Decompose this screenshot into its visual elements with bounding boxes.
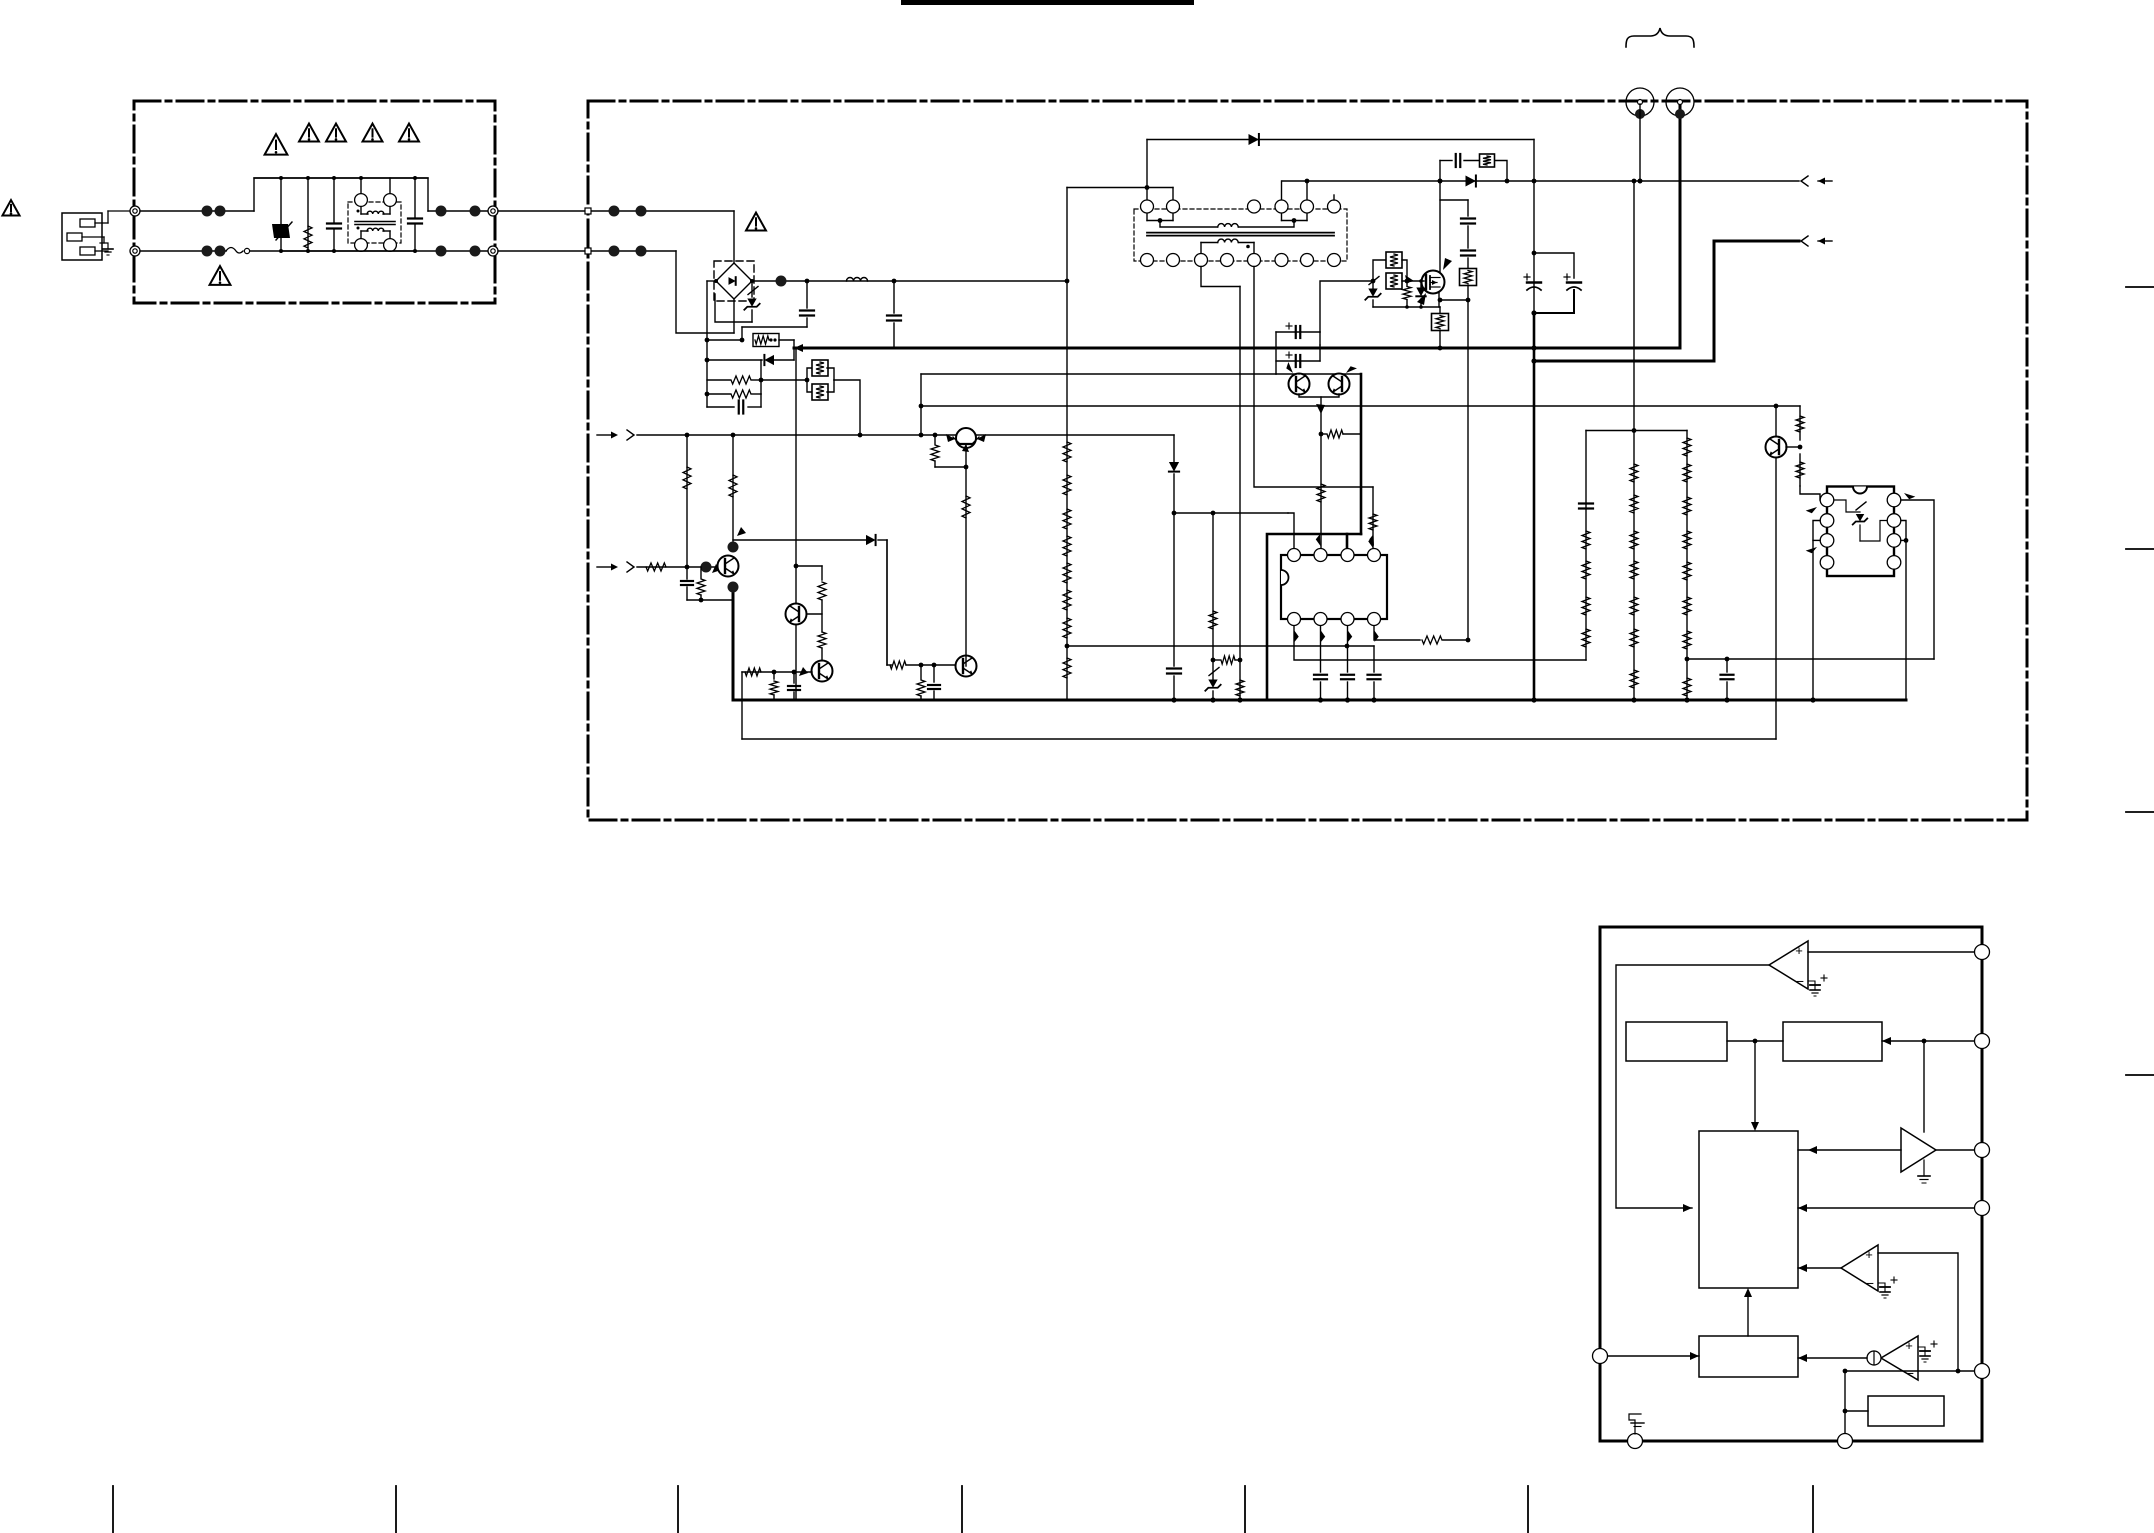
svg-text:−: − [1906, 1365, 1914, 1381]
svg-text:−: − [1796, 973, 1804, 989]
svg-text:+: + [1795, 943, 1803, 958]
svg-text:+: + [1905, 1338, 1913, 1353]
svg-text:−: − [1866, 1275, 1874, 1291]
svg-text:+: + [1865, 1247, 1873, 1262]
